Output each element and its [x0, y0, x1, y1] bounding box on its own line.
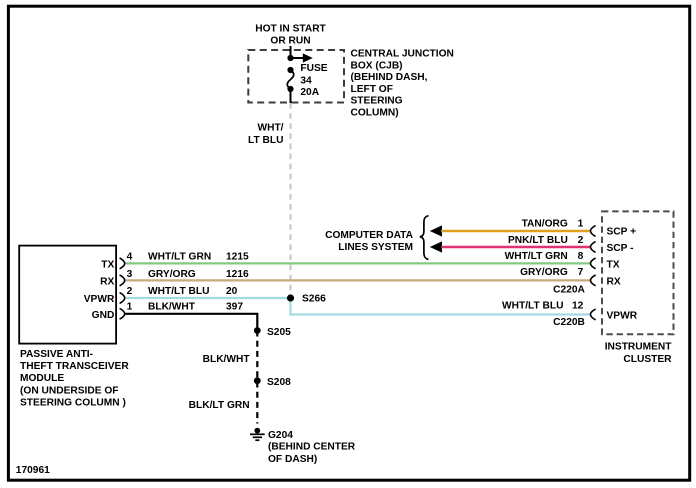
label COMPUTER DATA LINES SYSTEM	[325, 230, 414, 253]
label G204 (BEHIND CENTER OF DASH)	[268, 430, 356, 465]
cluster connector arcs	[591, 226, 596, 320]
svg-text:(BEHIND DASH,: (BEHIND DASH,	[351, 72, 428, 83]
wire WHT/LT GRN TX	[125, 262, 591, 264]
svg-text:THEFT TRANSCEIVER: THEFT TRANSCEIVER	[20, 361, 129, 372]
svg-text:1215: 1215	[226, 252, 249, 263]
instrument cluster dashed box	[602, 211, 674, 334]
wire fuse to box bottom	[290, 89, 292, 103]
svg-text:170961: 170961	[16, 465, 50, 476]
svg-text:397: 397	[226, 302, 243, 313]
splice S208	[254, 377, 261, 384]
svg-text:PNK/LT BLU: PNK/LT BLU	[508, 235, 568, 246]
svg-text:VPWR: VPWR	[607, 311, 638, 322]
fuse F34 squiggle element	[287, 70, 293, 89]
svg-text:1: 1	[578, 219, 584, 230]
svg-text:WHT/LT GRN: WHT/LT GRN	[505, 251, 568, 262]
svg-text:(ON UNDERSIDE OF: (ON UNDERSIDE OF	[20, 385, 118, 396]
svg-text:PASSIVE ANTI-: PASSIVE ANTI-	[20, 349, 93, 360]
svg-text:FUSE: FUSE	[300, 63, 327, 74]
svg-text:COLUMN): COLUMN)	[351, 107, 399, 118]
svg-text:RX: RX	[100, 277, 114, 288]
svg-text:S205: S205	[267, 327, 291, 338]
svg-text:INSTRUMENT: INSTRUMENT	[605, 341, 673, 352]
central junction box (CJB) dashed outline	[248, 50, 344, 103]
svg-text:RX: RX	[607, 277, 621, 288]
wire WHT/LT BLU from S266 to cluster	[291, 298, 591, 315]
svg-text:8: 8	[578, 251, 584, 262]
wire WHT/LT BLU VPWR to S266	[125, 297, 291, 299]
label HOT IN START / OR RUN	[255, 24, 326, 47]
svg-text:34: 34	[300, 76, 312, 87]
passive anti-theft transceiver module box	[19, 246, 116, 344]
svg-text:STEERING: STEERING	[351, 96, 403, 107]
label PASSIVE ANTI-THEFT TRANSCEIVER MODULE	[20, 349, 129, 408]
wire BLK/WHT GND	[125, 314, 257, 331]
wire WHT/LT BLU dashed gray feed from CJB to S266	[289, 103, 291, 296]
label INSTRUMENT CLUSTER	[605, 341, 673, 365]
svg-text:WHT/LT BLU: WHT/LT BLU	[502, 301, 563, 312]
svg-text:20: 20	[226, 286, 238, 297]
svg-text:MODULE: MODULE	[20, 373, 64, 384]
cluster wire color labels	[502, 219, 568, 312]
svg-text:C220A: C220A	[553, 285, 585, 296]
splice S205	[254, 327, 261, 334]
svg-text:12: 12	[572, 301, 584, 312]
module connector arcs	[120, 258, 125, 319]
arrow into data lines (SCP-)	[430, 241, 442, 252]
wire GRY/ORG RX	[125, 279, 591, 281]
svg-text:BLK/WHT: BLK/WHT	[148, 302, 196, 313]
arrow into data lines (SCP+)	[430, 225, 442, 236]
cluster pin numbers 1 2 8 7 12	[572, 219, 584, 312]
arrow tap to right inside CJB	[291, 53, 313, 62]
wire color labels at module	[148, 252, 211, 313]
svg-text:4: 4	[127, 252, 133, 263]
svg-text:20A: 20A	[300, 87, 319, 98]
node dot below fuse element	[287, 86, 293, 92]
svg-text:WHT/LT BLU: WHT/LT BLU	[148, 286, 209, 297]
wire PNK/LT BLU	[441, 246, 591, 248]
wire BLK/WHT dashed to ground	[256, 331, 258, 424]
svg-text:OF DASH): OF DASH)	[268, 454, 317, 465]
svg-text:BLK/LT GRN: BLK/LT GRN	[189, 400, 250, 411]
module pin labels TX RX VPWR GND	[84, 260, 115, 321]
brace for computer data lines	[420, 216, 429, 260]
svg-text:LT BLU: LT BLU	[248, 135, 283, 146]
svg-text:CLUSTER: CLUSTER	[623, 354, 672, 365]
cluster pin labels SCP+ SCP- TX RX VPWR	[607, 227, 638, 322]
svg-text:TX: TX	[607, 260, 620, 271]
svg-text:C220B: C220B	[553, 317, 585, 328]
svg-text:(BEHIND CENTER: (BEHIND CENTER	[268, 441, 356, 452]
svg-text:S266: S266	[302, 293, 326, 304]
svg-text:1216: 1216	[226, 269, 249, 280]
svg-text:OR RUN: OR RUN	[270, 36, 310, 47]
svg-text:TAN/ORG: TAN/ORG	[522, 219, 568, 230]
svg-text:LINES SYSTEM: LINES SYSTEM	[338, 242, 413, 253]
svg-text:WHT/LT GRN: WHT/LT GRN	[148, 252, 211, 263]
svg-text:WHT/: WHT/	[257, 123, 283, 134]
svg-text:2: 2	[127, 286, 133, 297]
wire from HOT IN START into fuse	[290, 46, 292, 58]
svg-text:2: 2	[578, 235, 584, 246]
svg-text:S208: S208	[267, 377, 291, 388]
svg-text:VPWR: VPWR	[84, 294, 115, 305]
svg-text:SCP +: SCP +	[607, 227, 637, 238]
svg-text:7: 7	[578, 267, 584, 278]
svg-text:GRY/ORG: GRY/ORG	[148, 269, 196, 280]
svg-text:G204: G204	[268, 430, 293, 441]
svg-text:SCP -: SCP -	[607, 243, 634, 254]
svg-text:COMPUTER DATA: COMPUTER DATA	[325, 230, 414, 241]
svg-text:HOT IN START: HOT IN START	[255, 24, 326, 35]
svg-text:GND: GND	[92, 310, 115, 321]
label FUSE 34 20A	[300, 63, 327, 98]
wire TAN/ORG	[441, 230, 591, 232]
ground G204 symbol	[250, 428, 265, 441]
label WHT/ LT BLU	[248, 123, 284, 147]
svg-text:GRY/ORG: GRY/ORG	[520, 267, 568, 278]
label CENTRAL JUNCTION BOX (CJB)	[351, 49, 454, 119]
splice S266	[287, 294, 294, 301]
svg-text:3: 3	[127, 269, 133, 280]
module pin numbers 4 3 2 1	[127, 252, 133, 313]
svg-text:TX: TX	[101, 260, 114, 271]
svg-text:STEERING COLUMN ): STEERING COLUMN )	[20, 397, 126, 408]
svg-text:CENTRAL JUNCTION: CENTRAL JUNCTION	[351, 49, 454, 60]
svg-text:LEFT OF: LEFT OF	[351, 84, 393, 95]
circuit numbers 1215 1216 20 397	[226, 252, 249, 313]
node dot above fuse element	[287, 67, 293, 73]
node dot top of fuse	[287, 55, 293, 61]
svg-text:1: 1	[127, 302, 133, 313]
svg-text:BLK/WHT: BLK/WHT	[203, 354, 251, 365]
svg-text:BOX (CJB): BOX (CJB)	[351, 61, 403, 72]
